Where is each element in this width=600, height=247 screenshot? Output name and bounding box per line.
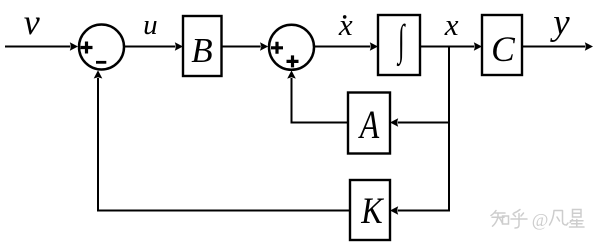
svg-text:y: y (549, 2, 570, 43)
summing junction S2 (269, 25, 314, 70)
glyph xing (570, 210, 585, 228)
watermark zhihu (491, 210, 584, 229)
S2 plus sign left (271, 42, 283, 54)
block A (348, 93, 390, 154)
wire output y (522, 46, 586, 48)
wire input v (5, 46, 71, 48)
wire node to A (398, 122, 450, 124)
S1 minus sign (96, 61, 106, 64)
wire integrator to C (420, 46, 475, 48)
S1 plus sign (81, 42, 93, 54)
svg-text:x: x (444, 7, 459, 42)
svg-text:A: A (358, 102, 380, 146)
wire S2 to integrator (315, 46, 371, 48)
svg-text:u: u (143, 9, 158, 41)
block B (183, 16, 222, 76)
svg-text:x: x (338, 7, 353, 42)
integrator block (378, 15, 420, 75)
glyph hu (511, 210, 527, 229)
block K (350, 180, 390, 240)
summing junction S1 (79, 25, 124, 70)
svg-text:v: v (24, 2, 40, 42)
wire S1 to B (125, 46, 176, 48)
glyph fan (550, 211, 569, 226)
wire node to K (398, 210, 450, 212)
wire K to S1 (98, 78, 350, 211)
svg-text:@: @ (532, 210, 549, 230)
wire B to S2 (222, 46, 261, 48)
svg-text:K: K (360, 191, 384, 231)
svg-text:B: B (191, 31, 212, 70)
glyph zhi (491, 211, 509, 227)
node x branch wire down (448, 47, 450, 212)
S2 plus sign bottom (287, 55, 299, 67)
svg-text:C: C (491, 29, 515, 69)
block C (482, 15, 522, 75)
wire A to S2 (292, 78, 349, 123)
